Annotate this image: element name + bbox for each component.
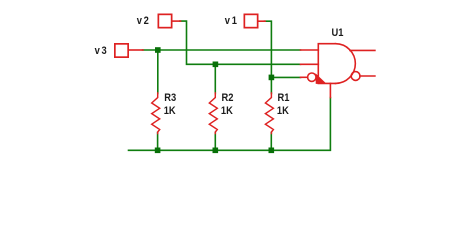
svg-text:R2: R2 (222, 92, 234, 104)
svg-text:R1: R1 (278, 92, 290, 104)
svg-text:v1: v1 (225, 15, 239, 27)
svg-text:R3: R3 (164, 92, 176, 104)
svg-text:v3: v3 (95, 45, 109, 57)
svg-text:1K: 1K (277, 105, 290, 117)
svg-text:v2: v2 (137, 15, 151, 27)
svg-text:U1: U1 (332, 27, 344, 39)
svg-text:1K: 1K (164, 105, 177, 117)
svg-text:1K: 1K (221, 105, 234, 117)
